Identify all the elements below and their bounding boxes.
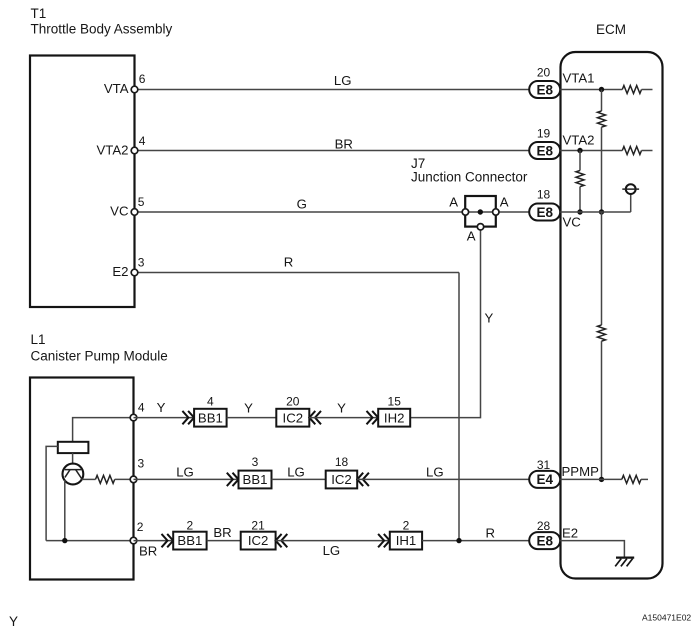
wire row3 BB1 to IC2 bbox=[272, 478, 326, 480]
wire VC up to source node bbox=[630, 194, 632, 212]
junction dot R wire bottom row bbox=[456, 538, 461, 543]
svg-text:4: 4 bbox=[139, 134, 146, 148]
chevron out of IC2 row4 bbox=[309, 411, 321, 424]
chevron into BB1 row2 bbox=[162, 534, 174, 547]
svg-text:E8: E8 bbox=[536, 143, 553, 158]
wire VTA2 inside ECM bbox=[560, 150, 622, 152]
svg-text:31: 31 bbox=[537, 458, 551, 472]
pump motor chord bbox=[65, 469, 82, 471]
resistor VTA1 horizontal bbox=[622, 86, 641, 94]
wire row2 IC2 to IH1 bbox=[276, 540, 390, 542]
junction dot PPMP row bbox=[599, 477, 604, 482]
component L1 Canister Pump Module box bbox=[30, 378, 134, 580]
svg-text:LG: LG bbox=[334, 73, 352, 88]
svg-text:28: 28 bbox=[537, 519, 551, 533]
svg-text:5: 5 bbox=[138, 195, 145, 209]
power source node bar bbox=[622, 188, 639, 190]
svg-text:VTA: VTA bbox=[104, 81, 129, 96]
svg-text:20: 20 bbox=[286, 394, 300, 408]
svg-text:Throttle Body Assembly: Throttle Body Assembly bbox=[31, 22, 173, 37]
node A right pin of J7 bbox=[493, 209, 499, 215]
wire vertical to VC row left bbox=[579, 187, 581, 212]
connector IH2 row4 bbox=[378, 409, 410, 427]
connector oval E8 pin 20 bbox=[529, 81, 560, 98]
svg-text:G: G bbox=[297, 196, 307, 211]
connector oval E8 pin 19 bbox=[529, 142, 560, 159]
wire resistor to pin 3 bbox=[115, 478, 134, 480]
svg-text:LG: LG bbox=[323, 543, 341, 558]
junction connector J7 box bbox=[465, 196, 496, 227]
svg-text:VTA1: VTA1 bbox=[563, 71, 595, 86]
wire G from T1 VC pin 5 through J7 to ECM E8-18 bbox=[135, 211, 530, 213]
svg-text:E8: E8 bbox=[536, 205, 553, 220]
L1 internal wire from pin 4 to pump block bbox=[73, 418, 134, 442]
L1 internal wire from block left around to pin 2 row bbox=[46, 446, 58, 540]
svg-text:A150471E02: A150471E02 bbox=[642, 613, 691, 623]
svg-text:E4: E4 bbox=[536, 472, 553, 487]
svg-text:3: 3 bbox=[138, 456, 145, 470]
svg-text:IC2: IC2 bbox=[331, 472, 352, 487]
svg-text:BR: BR bbox=[213, 525, 231, 540]
resistor vertical VC to PPMP bbox=[598, 325, 606, 341]
svg-text:15: 15 bbox=[388, 394, 402, 408]
wire after VTA1 resistor bbox=[642, 89, 653, 91]
chevron into BB1 row3 bbox=[227, 473, 239, 486]
pin 6 VTA of T1 bbox=[131, 86, 138, 93]
resistor PPMP horizontal bbox=[622, 475, 641, 483]
svg-text:BB1: BB1 bbox=[243, 472, 268, 487]
pump motor vane left bbox=[65, 470, 70, 478]
wire row2 IH1 to ECM E8-28 bbox=[422, 540, 529, 542]
L1 internal wire block bottom to pump motor bbox=[72, 453, 74, 464]
svg-text:IH1: IH1 bbox=[396, 533, 417, 548]
svg-text:BR: BR bbox=[335, 137, 353, 152]
svg-text:2: 2 bbox=[403, 519, 410, 533]
svg-text:IC2: IC2 bbox=[248, 533, 269, 548]
pin 3 E2 of T1 bbox=[131, 269, 138, 276]
connector oval E4 pin 31 bbox=[529, 471, 560, 488]
svg-text:18: 18 bbox=[335, 455, 349, 469]
connector IH1 row2 bbox=[390, 532, 422, 550]
wire vertical to VC row bbox=[601, 127, 603, 212]
wire pump bottom down to pin 2 row bbox=[64, 480, 66, 541]
svg-text:PPMP: PPMP bbox=[562, 464, 600, 479]
connector oval E8 pin 18 bbox=[529, 204, 560, 221]
svg-text:3: 3 bbox=[252, 455, 259, 469]
wire row4 IC2 to IH2 bbox=[309, 417, 378, 419]
chevron out of IC2 row3 bbox=[357, 473, 369, 486]
svg-text:BR: BR bbox=[139, 544, 157, 559]
component ECM box bbox=[561, 52, 663, 579]
resistor vertical VTA2 to VC bbox=[576, 171, 584, 187]
svg-text:LG: LG bbox=[176, 465, 194, 480]
svg-text:R: R bbox=[284, 255, 294, 270]
svg-text:VC: VC bbox=[563, 215, 582, 230]
svg-text:LG: LG bbox=[426, 465, 444, 480]
connector IC2 row4 bbox=[276, 409, 309, 427]
pin 2 of L1 bbox=[130, 537, 137, 544]
wire pump right to internal resistor bbox=[82, 478, 96, 480]
svg-text:4: 4 bbox=[207, 394, 214, 408]
svg-text:Y: Y bbox=[244, 401, 253, 416]
wire after VTA2 resistor bbox=[642, 150, 653, 152]
wire VTA1 vertical upper bbox=[601, 90, 603, 112]
L1 internal block component bbox=[58, 442, 89, 453]
pump motor symbol circle bbox=[63, 464, 84, 485]
wire VTA2 vertical upper bbox=[579, 151, 581, 171]
svg-text:18: 18 bbox=[537, 188, 551, 202]
svg-text:6: 6 bbox=[139, 72, 146, 86]
svg-text:L1: L1 bbox=[31, 332, 46, 347]
connector BB1 row3 bbox=[239, 471, 272, 489]
svg-text:IH2: IH2 bbox=[384, 410, 405, 425]
junction dot VTA1 bbox=[599, 87, 604, 92]
pin 4 VTA2 of T1 bbox=[131, 147, 138, 154]
svg-text:4: 4 bbox=[138, 401, 145, 415]
chevron into IH1 row2 bbox=[378, 534, 390, 547]
wire vertical VC row to resistor bbox=[601, 212, 603, 325]
svg-text:Junction Connector: Junction Connector bbox=[411, 169, 528, 184]
svg-text:ECM: ECM bbox=[596, 22, 626, 37]
svg-text:2: 2 bbox=[137, 520, 144, 534]
svg-text:R: R bbox=[486, 526, 496, 541]
chevron into IH2 row4 bbox=[367, 411, 379, 424]
wire VC inside ECM bbox=[560, 211, 631, 213]
svg-text:A: A bbox=[449, 195, 458, 210]
wire row4 pin4 to BB1 bbox=[134, 417, 195, 419]
L1 internal wire pin 2 row bbox=[46, 540, 133, 542]
wire vertical to PPMP row bbox=[601, 341, 603, 479]
pump motor vane right bbox=[76, 470, 82, 479]
wire after PPMP resistor bbox=[641, 478, 648, 480]
wire E2 inside ECM bbox=[560, 541, 624, 558]
pin 4 of L1 bbox=[130, 414, 137, 421]
svg-text:Y: Y bbox=[9, 614, 18, 629]
wire row2 pin2 to BB1 bbox=[134, 540, 174, 542]
node A bottom pin of J7 bbox=[477, 224, 483, 230]
svg-text:T1: T1 bbox=[31, 6, 47, 21]
connector BB1 row4 bbox=[194, 409, 227, 427]
wire PPMP inside ECM bbox=[560, 478, 622, 480]
svg-text:E8: E8 bbox=[536, 82, 553, 97]
wire VTA1 inside ECM bbox=[560, 89, 622, 91]
connector IC2 row2 bbox=[241, 532, 276, 550]
svg-text:E8: E8 bbox=[536, 533, 553, 548]
svg-text:IC2: IC2 bbox=[283, 410, 304, 425]
junction dot VTA2 bbox=[577, 148, 582, 153]
svg-text:VTA2: VTA2 bbox=[96, 142, 128, 157]
svg-text:A: A bbox=[467, 229, 476, 244]
chevron into BB1 row4 bbox=[182, 411, 194, 424]
wire R from T1 E2 pin 3 horizontal bbox=[135, 272, 460, 274]
wire row4 BB1 to IC2 bbox=[227, 417, 277, 419]
svg-text:VTA2: VTA2 bbox=[563, 133, 595, 148]
wire row3 IC2 to ECM E4-31 bbox=[357, 478, 529, 480]
svg-text:19: 19 bbox=[537, 127, 551, 141]
pin 3 of L1 bbox=[130, 476, 137, 483]
svg-text:3: 3 bbox=[138, 256, 145, 270]
svg-text:Y: Y bbox=[157, 400, 166, 415]
power source node circle bbox=[626, 184, 636, 194]
resistor inside L1 bbox=[96, 475, 115, 483]
svg-text:BB1: BB1 bbox=[198, 410, 223, 425]
wire row2 BB1 to IC2 bbox=[207, 540, 241, 542]
connector oval E8 pin 28 bbox=[529, 532, 560, 549]
connector BB1 row2 bbox=[173, 532, 206, 550]
svg-text:A: A bbox=[500, 195, 509, 210]
wire LG from T1 VTA pin 6 to ECM E8-20 bbox=[135, 89, 530, 91]
resistor VTA2 horizontal bbox=[622, 147, 641, 155]
svg-text:BB1: BB1 bbox=[177, 533, 202, 548]
junction dot at VC row center bbox=[599, 209, 604, 214]
wire row3 pin3 to BB1 bbox=[134, 478, 239, 480]
resistor vertical VTA1 to VC bbox=[598, 111, 606, 127]
svg-text:VC: VC bbox=[110, 204, 129, 219]
svg-text:2: 2 bbox=[187, 519, 194, 533]
connector IC2 row3 bbox=[326, 471, 358, 489]
svg-text:21: 21 bbox=[251, 519, 265, 533]
svg-text:LG: LG bbox=[287, 465, 305, 480]
svg-text:20: 20 bbox=[537, 66, 551, 80]
svg-text:E2: E2 bbox=[562, 526, 578, 541]
junction dot VTA2-VC bbox=[577, 209, 582, 214]
ground bbox=[615, 558, 634, 567]
svg-text:Y: Y bbox=[485, 311, 494, 326]
wire BR from T1 VTA2 pin 4 to ECM E8-19 bbox=[135, 150, 530, 152]
junction dot inside J7 bbox=[478, 209, 483, 214]
svg-text:Canister Pump Module: Canister Pump Module bbox=[31, 348, 168, 363]
node A left pin of J7 bbox=[462, 209, 468, 215]
wire Y from J7 pin A down to IH2 row bbox=[410, 227, 480, 418]
svg-text:Y: Y bbox=[337, 401, 346, 416]
chevron out of IC2 row2 bbox=[276, 534, 288, 547]
junction dot L1 internal bbox=[62, 538, 67, 543]
pin 5 VC of T1 bbox=[131, 209, 138, 216]
component T1 Throttle Body Assembly box bbox=[30, 56, 135, 308]
svg-text:E2: E2 bbox=[112, 264, 128, 279]
wire R vertical down to bottom row bbox=[458, 273, 460, 541]
